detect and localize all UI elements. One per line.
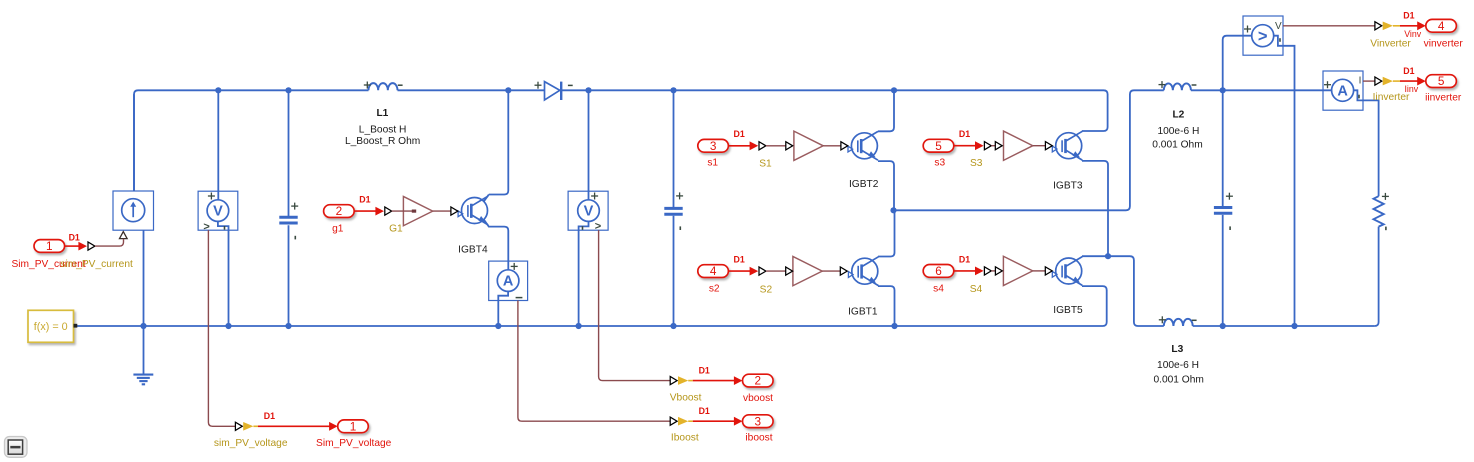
wire V1 minus to bottom rail [218,221,229,326]
svg-text:D1: D1 [69,233,80,243]
svg-text:vinverter: vinverter [1424,39,1464,50]
signal wire red (s4) [954,267,984,276]
wire junction to V sensor plus [1223,36,1252,91]
voltage sensor Vinv minus tick [1279,38,1281,42]
svg-text:S3: S3 [970,158,983,169]
transistor IGBT1 [848,257,878,286]
wire IGBT5 emitter [1082,286,1107,290]
wire IGBT4 collector diag [484,195,489,202]
node top rail / IGBT4 [505,87,511,93]
gold arrow (Iboost) [678,417,688,426]
node top rail / V1 [215,87,221,93]
node mid-left leg [890,207,896,213]
svg-text:L3: L3 [1171,344,1183,355]
gain block (s1) [794,131,823,160]
svg-text:Sim_PV_voltage: Sim_PV_voltage [316,438,392,449]
voltage sensor V1 plus [208,193,215,200]
svg-text:D1: D1 [733,255,744,265]
signal conversion marker (s3) [984,142,991,150]
inductor L2 bumps [1164,83,1191,90]
signal wire maroon (s1) [766,145,786,147]
svg-text:V: V [1275,21,1282,32]
gain output wire (s3) [1033,145,1046,147]
current sensor Ainv plus [1324,81,1331,88]
voltage sensor Vinv plus [1244,26,1251,33]
current sensor Ainv circle [1332,79,1354,101]
wire IGBT2 collector to top rail [878,90,894,131]
gain input marker (s1) [786,142,793,150]
svg-text:Vboost: Vboost [670,393,702,404]
igbt gate marker (s1) [841,142,848,150]
current sensor A1 plus [511,263,518,270]
capacitor C1 plus [291,203,298,210]
svg-text:iinverter: iinverter [1425,93,1462,104]
signal wire maroon (Vinverter) [1283,25,1375,27]
input port 1 (Sim_PV_current) [34,239,65,253]
svg-text:D1: D1 [359,195,370,205]
gold wire (Iboost) [688,420,693,422]
svg-text:3: 3 [710,139,717,153]
voltage sensor V2 minus tick [582,226,584,230]
svg-text:6: 6 [935,264,942,278]
svg-text:4: 4 [710,264,717,278]
gain input marker (s4) [995,267,1002,275]
svg-text:2: 2 [755,374,762,388]
signal conversion marker (s4) [984,267,991,275]
solver configuration block f(x)=0 [28,310,77,342]
svg-text:Iinverter: Iinverter [1373,92,1410,103]
svg-text:D1: D1 [699,365,710,375]
signal wire maroon (Iboost) [518,301,670,422]
signal conversion marker (sim_PV_voltage) [235,422,242,430]
svg-text:V: V [584,204,594,220]
svg-text:>: > [1258,28,1268,46]
current sensor A1 box [489,261,528,300]
gain output wire (s1) [823,145,841,147]
voltage sensor Vinv circle [1252,25,1274,47]
gold wire (Vboost) [688,380,693,382]
svg-text:IGBT2: IGBT2 [849,179,879,190]
gold arrow (Vinverter) [1383,22,1393,31]
svg-text:5: 5 [1438,74,1445,88]
wire current source top pin [133,94,135,199]
svg-text:iboost: iboost [745,433,772,444]
svg-text:3: 3 [755,414,762,428]
wire V2 minus to bottom rail [579,221,589,326]
svg-text:sim_PV_voltage: sim_PV_voltage [214,438,288,449]
voltage sensor V1 minus tick [224,226,226,230]
svg-text:D1: D1 [1403,11,1414,21]
L3 plus mark [1159,316,1166,323]
output port 4 (Vinverter) [1426,19,1457,33]
svg-text:Vinverter: Vinverter [1370,38,1411,49]
wire IGBT4 collector to top rail [489,90,509,194]
svg-text:L_Boost H: L_Boost H [359,125,407,136]
wire IGBT4 emitter to A1 [484,220,508,271]
gain output wire (s4) [1033,270,1046,272]
current sensor Ainv minus tick [1358,95,1360,99]
gold wire (Vinverter) [1393,25,1400,27]
igbt gate marker (s2) [840,267,847,275]
signal conversion marker (s1) [759,142,766,150]
gain output wire (g1) [433,210,451,212]
wire resistor to bottom rail [1375,227,1379,326]
svg-text:100e-6 H: 100e-6 H [1157,360,1199,371]
output port 1 (sim_PV_voltage) [338,419,369,433]
svg-text:A: A [503,274,514,290]
svg-text:2: 2 [336,204,343,218]
signal wire red (sim_PV_voltage) [258,422,338,431]
wire ground stem [143,326,145,374]
signal wire maroon (s2) [766,270,786,272]
signal wire red (Sim_PV_current) [65,242,87,251]
svg-text:G1: G1 [389,224,403,235]
signal wire red (s2) [728,267,758,276]
svg-text:D1: D1 [699,406,710,416]
capacitor C3 plus [1226,193,1233,200]
wire IGBT3 emitter to mid-right node [1082,161,1108,256]
svg-text:f(x) = 0: f(x) = 0 [34,321,68,333]
igbt gate marker (g1) [451,207,458,215]
node L2 output junction [1220,87,1226,93]
diode plus mark [535,82,542,89]
node top rail / C1 [285,87,291,93]
svg-text:100e-6 H: 100e-6 H [1157,126,1199,137]
wire V sensor minus down [1274,36,1295,326]
signal wire maroon (s3) [991,145,995,147]
svg-text:IGBT5: IGBT5 [1053,305,1083,316]
wire mid-left node to L2 [894,90,1164,210]
signal wire maroon to current source [95,239,124,246]
node top rail / V2 [585,87,591,93]
signal wire red (s1) [728,141,758,150]
svg-text:IGBT4: IGBT4 [458,245,488,256]
svg-text:g1: g1 [332,223,344,234]
signal conversion marker (Vboost) [670,377,677,385]
wire L3 to load bottom [1193,325,1375,327]
transistor IGBT3 [1052,131,1082,160]
svg-text:L1: L1 [376,108,388,119]
svg-text:D1: D1 [1403,66,1414,76]
diode minus mark [568,84,573,86]
node bottom rail / A1 [495,323,501,329]
svg-text:S2: S2 [760,284,773,295]
svg-text:L_Boost_R Ohm: L_Boost_R Ohm [345,136,420,147]
capacitor C2 minus tick [679,226,681,230]
wire IGBT5 collector to mid-right node [1082,255,1108,257]
wire current source bottom pin to rail [143,230,145,326]
current sensor A1 circle [497,270,519,292]
svg-text:A: A [1337,83,1348,99]
wire IGBT1 emitter to bottom rail [878,286,895,326]
svg-text:s2: s2 [709,283,720,294]
inductor L1 bumps [369,83,398,90]
diode D1 power [545,82,562,100]
output port 2 (Vboost) [743,374,774,388]
resistor R load zigzag [1374,196,1384,226]
wire A sensor minus to resistor [1354,90,1379,196]
gain output wire (s2) [822,270,840,272]
voltage sensor V2 circle [578,200,600,222]
node top rail / C2 [670,87,676,93]
voltage sensor Vinv box [1243,16,1283,55]
current sensor Ainv box [1323,71,1363,110]
wire V2 column top [588,90,590,200]
signal wire red (g1) [354,207,384,216]
L2 minus mark [1192,84,1197,86]
transistor IGBT5 [1052,257,1082,286]
wire L2 to A sensor [1191,89,1332,91]
igbt gate marker (s4) [1045,267,1052,275]
igbt gate marker (s3) [1045,142,1052,150]
wire bottom rail [77,290,1107,326]
transistor IGBT2 [848,131,878,160]
node top rail / IGBT2 [891,87,897,93]
signal wire maroon (s4) [991,270,995,272]
signal conversion marker (g1) [385,207,392,215]
gain block (s4) [1003,256,1032,285]
gain block (s3) [1004,131,1033,160]
output port 5 (Iinverter) [1426,74,1457,88]
gold wire (Iinverter) [1393,80,1400,82]
node bottom rail / IGBT1 [891,323,897,329]
wire V1 column top [217,90,219,200]
svg-text:D1: D1 [959,129,970,139]
gold wire (sim_PV_voltage) [253,425,258,427]
svg-text:0.001 Ohm: 0.001 Ohm [1153,375,1203,386]
gain input marker (s3) [995,142,1002,150]
node load rail / C3 [1220,323,1226,329]
voltage sensor V1 box [198,191,238,230]
svg-text:vboost: vboost [743,393,773,404]
node bottom rail / V2 [576,323,582,329]
svg-text:s4: s4 [933,284,944,295]
voltage sensor V1 circle [207,200,229,222]
L3 minus mark [1192,319,1197,321]
signal wire maroon (Vboost) [599,230,671,380]
wire IGBT1 collector to mid-left node [878,210,895,256]
svg-text:IGBT3: IGBT3 [1053,181,1083,192]
svg-text:sim_PV_current: sim_PV_current [60,259,133,270]
L1 minus mark [398,84,403,86]
svg-text:V: V [213,204,223,220]
wire top rail mid segment [398,89,545,91]
capacitor C1 [279,217,297,223]
svg-text:D1: D1 [959,254,970,264]
input port 4 (s2) [698,264,729,278]
input port 3 (s1) [698,139,729,153]
gold arrow (Iinverter) [1383,77,1393,86]
signal wire red (s3) [954,141,984,150]
wire A1 minus to bottom rail [498,291,508,326]
output port 3 (Iboost) [743,414,774,428]
wire top rail right segment [562,90,1108,131]
signal wire maroon (Iinverter) [1363,80,1375,82]
svg-text:5: 5 [935,139,942,153]
transistor IGBT4 [458,196,488,225]
wire cap2 column [673,90,675,326]
signal conversion marker (Iboost) [670,417,677,425]
gain block (s2) [793,256,822,285]
capacitor C2 plus [676,192,683,199]
signal wire red (Iinverter) [1400,77,1426,86]
node bottom rail / V1 [225,323,231,329]
svg-text:s1: s1 [707,158,718,169]
signal conversion marker (s2) [759,267,766,275]
L2 plus mark [1159,81,1166,88]
svg-text:1: 1 [350,419,357,433]
svg-text:4: 4 [1438,19,1445,33]
svg-text:1: 1 [46,239,53,253]
node bottom rail / C2 [670,323,676,329]
gold arrow (sim_PV_voltage) [243,422,253,431]
line end marker (g1) [412,210,416,213]
signal wire red (Vboost) [693,376,743,385]
signal conversion marker (Vinverter) [1375,22,1382,30]
wire cap3 column [1222,90,1224,326]
signal wire maroon (sim_PV_voltage) [208,230,235,426]
signal wire maroon (g1) [392,210,414,212]
signal wire red (Vinverter) [1400,21,1426,30]
svg-text:0.001 Ohm: 0.001 Ohm [1152,139,1202,150]
collapse button [5,437,28,458]
input port 5 (s3) [923,139,954,153]
wire cap1 column [288,90,290,326]
capacitor C3 [1214,208,1232,214]
wire top rail left segment [134,90,369,191]
L1 plus mark [364,82,371,89]
wire mid-right node to L3 [1108,256,1164,326]
capacitor C2 [664,208,682,214]
svg-text:L2: L2 [1172,110,1184,121]
svg-text:D1: D1 [733,129,744,139]
signal wire red (Iboost) [693,417,743,426]
svg-text:s3: s3 [934,158,945,169]
current source block [113,191,154,230]
input port 2 (g1) [324,204,355,218]
signal conversion marker (Sim_PV_current) [88,242,95,250]
input port 6 (s4) [923,264,954,278]
capacitor C1 minus tick [294,236,296,240]
node load rail / Vinv minus [1291,323,1297,329]
node bottom rail / C1 [285,323,291,329]
svg-text:S4: S4 [970,284,983,295]
svg-text:Iboost: Iboost [671,433,699,444]
svg-text:D1: D1 [264,411,275,421]
capacitor C3 minus tick [1229,226,1231,230]
gold arrow (Vboost) [678,376,688,385]
wire IGBT2 emitter to mid-left node [878,161,894,210]
voltage sensor V2 plus [591,193,598,200]
node mid-right leg [1105,253,1111,259]
svg-text:IGBT1: IGBT1 [848,307,878,318]
gain block (g1) [403,196,432,225]
inductor L3 bumps [1164,319,1193,326]
current sensor A1 minus [516,297,523,299]
ground symbol [133,375,153,385]
current source PS input triangle [120,232,128,239]
gain input marker (s2) [786,267,793,275]
svg-text:S1: S1 [759,158,772,169]
voltage sensor V2 box [568,191,608,230]
resistor minus tick [1385,227,1387,231]
svg-text:I: I [1359,76,1362,87]
node bottom rail / ground [140,323,146,329]
resistor plus mark [1382,193,1389,200]
signal conversion marker (Iinverter) [1375,77,1382,85]
